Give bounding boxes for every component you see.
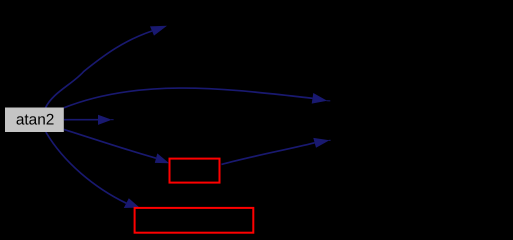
arrowhead edge5 (313, 138, 329, 148)
edge atan2 -> node3 (short horizontal) (64, 119, 98, 121)
arrowhead edge4 (155, 153, 169, 163)
arrowhead edge2 (312, 93, 328, 104)
edge atan2 -> red box R1 (64, 129, 156, 158)
node atan2 (5, 108, 64, 133)
arrowhead edge1 (150, 26, 167, 36)
wire stub edge3 (111, 119, 114, 121)
red truncated node R1 (170, 159, 220, 183)
edge atan2 -> red box R2 (46, 132, 127, 203)
edge R1 -> node2 (221, 143, 314, 165)
arrowhead edge6 (124, 198, 140, 208)
red truncated node R2 (135, 208, 254, 233)
edge atan2 -> node1 (top) (46, 31, 153, 108)
wire stub edge5 (329, 139, 331, 141)
wire stub edge2 (327, 100, 331, 102)
arrowhead edge3 (98, 115, 112, 125)
svg-text:atan2: atan2 (16, 111, 55, 128)
edge atan2 -> node2 (long flat curve) (64, 88, 313, 108)
